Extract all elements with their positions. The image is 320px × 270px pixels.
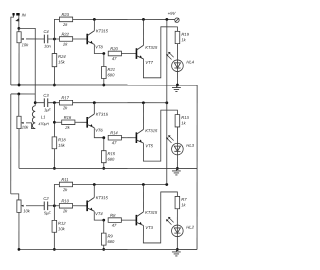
wire VT6 collector to rail [93, 103, 95, 114]
resistor R11 2k (bias upper) [59, 177, 72, 192]
wire C3 to node C [48, 102, 60, 104]
svg-text:R18: R18 [58, 137, 66, 142]
svg-text:5μF: 5μF [44, 210, 51, 215]
wire +9V distribution vertical [166, 19, 168, 184]
junction pot bottom to ground rail [18, 84, 21, 87]
wire pot top [18, 28, 20, 31]
resistor R13 1k [175, 115, 189, 127]
svg-text:KT315: KT315 [96, 28, 109, 33]
transistor VT6 KT315 (first stage) [86, 114, 94, 128]
svg-text:2k: 2k [64, 125, 70, 130]
svg-text:R19: R19 [181, 32, 189, 37]
svg-text:R16: R16 [64, 115, 72, 120]
wire R10 to VT4 base [73, 205, 88, 207]
wire +9V rail channel 3 [73, 183, 167, 185]
LED HL3 [166, 135, 195, 155]
wire LED HL3 cathode to ground rail [176, 155, 178, 169]
ground symbol channel 1 [172, 85, 181, 92]
svg-text:L1: L1 [41, 115, 46, 120]
ground symbol channel 2 [172, 168, 181, 175]
wire ground rail channel 3 [19, 248, 197, 250]
node emitter VT6 [102, 136, 105, 139]
LED HL4 [166, 52, 195, 72]
svg-text:R14: R14 [110, 130, 118, 135]
junction R12 to ground rail [53, 248, 56, 251]
wire C4 to node B [48, 38, 60, 40]
node C junction (C3 / R17 / bias vertical) [53, 101, 56, 104]
svg-text:R7: R7 [181, 197, 187, 202]
wire node to R15 [103, 138, 105, 151]
wire bias divider vertical (R23 left to R24 top) [54, 19, 59, 53]
svg-text:R22: R22 [61, 32, 69, 37]
resistor R21 680 [102, 66, 116, 78]
wire +9V rail channel 1 [73, 18, 175, 20]
resistor R8 47 [108, 213, 121, 228]
svg-text:680: 680 [107, 157, 115, 162]
wire R12 bottom to ground rail [53, 232, 55, 249]
wire channel-2 signal line (line2) [11, 93, 35, 95]
wire node to R21 [103, 53, 105, 66]
junction VT6 collector to +9V rail [93, 101, 96, 104]
transistor VT7 KT315 (output stage) [136, 45, 144, 59]
svg-text:KT315: KT315 [145, 128, 158, 133]
resistor R17 2k (bias upper) [59, 95, 72, 110]
wire pot bottom to channel-3 ground rail [18, 212, 20, 249]
svg-text:R11: R11 [61, 177, 68, 182]
wire LED HL4 cathode to ground rail [176, 72, 178, 85]
svg-text:10k: 10k [23, 208, 31, 213]
wire bias vertical down to R18 [53, 103, 55, 137]
connector plug chevron [17, 19, 20, 21]
transistor VT4 KT315 (first stage) [86, 197, 94, 211]
LED HL2 [166, 217, 195, 237]
wire R8 to VT3 base [121, 219, 136, 221]
svg-text:KT315: KT315 [145, 45, 158, 50]
wire signal rail B down to channel 3 [10, 94, 12, 194]
resistor R10 2k (base series) [59, 198, 72, 213]
inductor L1 470uH [32, 106, 49, 129]
resistor R24 15k (bias lower) [52, 54, 66, 67]
svg-text:10k: 10k [58, 226, 66, 231]
transistor VT8 KT315 (first stage) [86, 31, 94, 45]
wire signal jog from node A down to channel-2 line (crosses ch1 ground rail) [19, 28, 35, 94]
wire VT7 collector to rail [142, 19, 144, 45]
junction pot bottom to ground rail [18, 248, 21, 251]
svg-text:R15: R15 [107, 151, 115, 156]
resistor R19 1k [175, 31, 189, 43]
junction R15 to ground rail [102, 167, 105, 170]
junction VT7 collector to +9V rail [142, 18, 145, 21]
wire pot wiper to C4 [26, 38, 44, 40]
wire VT4 emitter to node [94, 211, 104, 220]
junction R16 left [53, 121, 56, 124]
wire VT6 emitter to node [94, 128, 104, 138]
junction LED HL2 to ground rail [176, 248, 179, 251]
wire R21 to ground rail [103, 78, 105, 85]
wire R20 to VT7 base [121, 53, 136, 55]
potentiometer 10k (channel 1 input level) [17, 32, 29, 48]
resistor R22 2k (base series) [59, 32, 72, 47]
junction LED HL3 to ground rail [176, 167, 179, 170]
wire VT3 emitter riser to R7 [143, 192, 177, 243]
wire R7 to LED HL2 [176, 209, 178, 225]
wire R16 to VT6 base [75, 121, 87, 123]
wire R9 to ground rail [103, 245, 105, 249]
wire pot bottom to channel-2 ground rail [18, 129, 20, 169]
node A junction (input signal / pot top) [17, 27, 20, 30]
junction VT3 collector to +9V rail [142, 183, 145, 186]
transistor VT3 KT315 (output stage) [136, 212, 144, 226]
svg-text:47: 47 [112, 223, 117, 228]
node emitter VT4 [102, 219, 105, 222]
svg-text:HL4: HL4 [186, 60, 194, 65]
wire R22 to VT8 base [73, 38, 88, 40]
wire right ground bus [196, 85, 198, 249]
svg-text:10n: 10n [44, 44, 51, 49]
capacitor C4 10n [43, 29, 51, 49]
node emitter VT8 [102, 52, 105, 55]
junction +9V feed [165, 18, 168, 21]
+9V terminal [175, 18, 179, 22]
svg-text:1μF: 1μF [44, 107, 51, 112]
svg-text:C3: C3 [43, 93, 49, 98]
resistor R16 2k (base series) [62, 115, 75, 130]
svg-text:680: 680 [107, 239, 115, 244]
resistor R23 2k (bias upper) [59, 12, 72, 27]
resistor R20 47 [108, 46, 121, 61]
svg-text:HL3: HL3 [186, 143, 194, 148]
resistor R12 (bias lower) [52, 220, 66, 232]
svg-text:VT3: VT3 [145, 225, 153, 230]
wire VT5 emitter riser to R13 [143, 110, 177, 161]
wire R14 to VT5 base [121, 137, 136, 139]
svg-text:470μH: 470μH [38, 122, 49, 126]
wire R15 to ground rail [103, 163, 105, 169]
wire input signal down to node A [18, 15, 20, 28]
wire ground rail channel 2 [19, 167, 197, 169]
potentiometer 10k (channel 3) [17, 200, 31, 213]
wire line2 corner down to L1 top / C3 node [34, 94, 36, 106]
wire VT8 collector to rail [93, 19, 95, 30]
wire VT4 collector to rail [93, 184, 95, 197]
svg-text:C2: C2 [43, 196, 49, 201]
wire VT7 emitter riser to R19 [143, 27, 177, 78]
junction LED HL4 to ground rail [176, 84, 179, 87]
wire bias vertical (R11 left to R12 top) [54, 184, 59, 220]
svg-text:10k: 10k [22, 42, 30, 47]
junction R24 to ground rail [53, 84, 56, 87]
svg-text:R13: R13 [181, 115, 189, 120]
svg-text:KT315: KT315 [96, 195, 109, 200]
svg-text:VT6: VT6 [95, 128, 103, 133]
svg-text:R23: R23 [61, 12, 69, 17]
wire node to R9 [103, 220, 105, 233]
wire L1 node to C3 [35, 102, 44, 104]
wire VT5 collector to rail [142, 103, 144, 130]
svg-text:15k: 15k [58, 59, 66, 64]
svg-text:R24: R24 [58, 54, 66, 59]
svg-text:+9V: +9V [168, 11, 177, 16]
svg-text:10k: 10k [22, 125, 30, 130]
resistor R7 1k [175, 196, 187, 208]
svg-text:R17: R17 [61, 95, 69, 100]
wire R19 to LED HL4 [176, 44, 178, 60]
svg-text:HL2: HL2 [186, 225, 194, 230]
svg-text:680: 680 [108, 72, 116, 77]
wire pot top (channel 2) [18, 94, 20, 116]
svg-text:R8: R8 [110, 213, 116, 218]
svg-text:15k: 15k [58, 143, 66, 148]
capacitor C2 5uF [43, 196, 51, 216]
potentiometer 10k (channel 2) [17, 116, 29, 129]
wire input ground to channel-1 ground rail (left rail A) [11, 15, 14, 85]
junction pot top on line2 [17, 93, 20, 96]
wire R13 to LED HL3 [176, 127, 178, 143]
svg-text:VT4: VT4 [95, 211, 103, 216]
wire pot wiper to C2 [26, 205, 44, 207]
ground symbol channel 3 [172, 249, 181, 256]
junction +9V feed [165, 101, 168, 104]
transistor VT5 KT315 (output stage) [136, 129, 144, 143]
svg-text:R9: R9 [107, 234, 113, 239]
svg-text:VT8: VT8 [95, 44, 103, 49]
junction R9 to ground rail [102, 248, 105, 251]
svg-text:C4: C4 [43, 29, 49, 34]
svg-text:KT315: KT315 [145, 210, 158, 215]
resistor R9 680 [101, 233, 115, 245]
svg-text:KT315: KT315 [96, 112, 109, 117]
wire channel-3 signal line (line3) to pot top [11, 194, 19, 200]
junction R21 to ground rail [102, 84, 105, 87]
resistor R18 15k (bias lower) [52, 137, 66, 149]
wire pot bottom to ground rail [18, 43, 20, 85]
junction VT8 collector to +9V rail [93, 18, 96, 21]
resistor R14 47 [108, 130, 121, 145]
svg-text:VT5: VT5 [145, 143, 153, 148]
junction C3 / L1 / signal [34, 101, 37, 104]
svg-text:47: 47 [112, 140, 117, 145]
wire R18 bottom to ground rail [53, 149, 55, 169]
wire VT8 emitter to node [94, 44, 104, 53]
svg-text:R20: R20 [110, 46, 118, 51]
junction VT4 collector to +9V rail [93, 183, 96, 186]
wire C2 to node D [48, 205, 60, 207]
wire ground rail channel 1 [11, 84, 197, 86]
resistor R15 680 [101, 151, 115, 163]
junction VT5 collector to +9V rail [142, 101, 145, 104]
svg-text:VT7: VT7 [145, 60, 153, 65]
capacitor C3 1uF [43, 93, 51, 113]
node D junction (C2 / R11 / R12 / R10) [53, 204, 56, 207]
wire pot wiper jog to L1 bottom [26, 123, 35, 129]
svg-text:R10: R10 [61, 198, 69, 203]
junction +9V feed [165, 183, 168, 186]
input connector XS1 pads [12, 13, 25, 18]
svg-text:IN: IN [22, 13, 26, 18]
node B junction (C4 / R23 / R24 / R22) [53, 38, 56, 41]
svg-text:47: 47 [112, 56, 117, 61]
svg-text:R12: R12 [58, 221, 66, 226]
wire to R16 left [54, 121, 61, 123]
wire +9V rail channel 2 [73, 102, 167, 104]
wire VT3 collector to rail [142, 185, 144, 212]
wire LED HL2 cathode to ground rail [176, 237, 178, 250]
wire R24 bottom to ground rail [53, 67, 55, 85]
junction R18 to ground rail [53, 167, 56, 170]
svg-text:R21: R21 [108, 67, 116, 72]
